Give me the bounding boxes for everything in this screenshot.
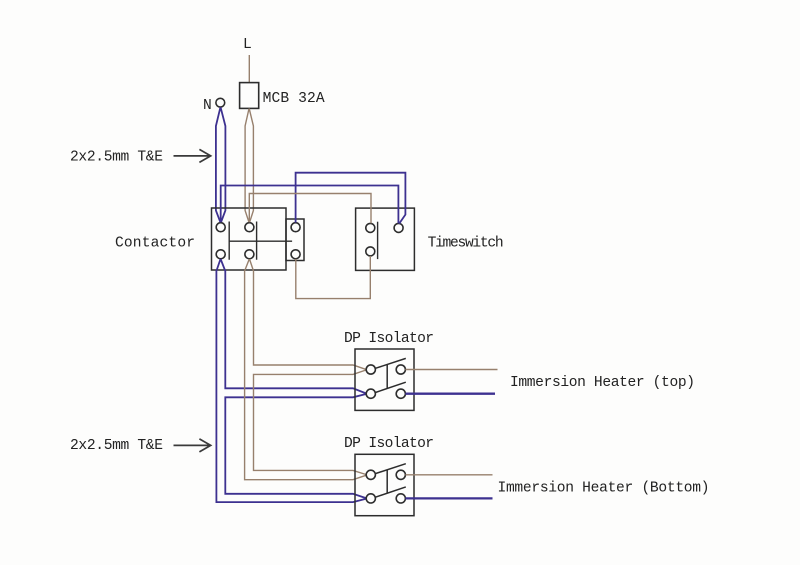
DP isolator 2 box: [355, 454, 414, 515]
contactor pole contact bars: [229, 222, 256, 260]
svg-text:DP Isolator: DP Isolator: [344, 436, 434, 452]
terminal isolator2 right-top: [396, 470, 405, 479]
wire pair N to contactor (neutral): [216, 107, 226, 222]
svg-text:Immersion Heater (Bottom): Immersion Heater (Bottom): [498, 481, 710, 497]
wire live DP isolator 1 to DP isolator 2: [254, 370, 367, 475]
wire neutral DP isolator 1 to DP isolator 2: [225, 394, 366, 498]
wire live contactor to DP isolator 1: [250, 259, 367, 369]
isolator1 switch blades: [375, 358, 405, 392]
arrow pointing to bottom cable: [174, 439, 211, 452]
contactor linkage bar: [229, 240, 292, 242]
terminal isolator2 left-top: [366, 470, 375, 479]
wire pair MCB to contactor (live): [245, 109, 253, 223]
svg-text:DP Isolator: DP Isolator: [344, 331, 434, 347]
wire contactor top-mid to timeswitch left-top (live): [249, 194, 371, 224]
wire timeswitch left-bottom to coil bottom (live): [296, 256, 371, 299]
terminal isolator2 right-bottom: [396, 494, 405, 503]
wire to immersion heater bottom (neutral): [405, 497, 492, 499]
MCB 32A breaker: [240, 83, 259, 109]
svg-text:Immersion Heater (top): Immersion Heater (top): [510, 375, 695, 391]
contactor box: [212, 208, 287, 270]
terminal contactor top-mid: [245, 223, 254, 232]
terminal isolator1 left-bottom: [366, 389, 375, 398]
svg-text:L: L: [243, 37, 252, 53]
svg-text:2x2.5mm T&E: 2x2.5mm T&E: [70, 438, 163, 454]
terminal isolator2 left-bottom: [366, 494, 375, 503]
wire to immersion heater bottom (live): [405, 474, 492, 476]
wire L to MCB (live feed): [248, 55, 250, 83]
terminal isolator1 left-top: [366, 365, 375, 374]
wire contactor top-left to timeswitch (blue): [221, 186, 399, 224]
DP isolator 1 box: [355, 349, 414, 410]
svg-text:2x2.5mm T&E: 2x2.5mm T&E: [70, 150, 163, 166]
wire to immersion heater top (neutral): [405, 393, 495, 395]
terminal timeswitch left-top: [366, 223, 375, 232]
isolator1 blade linkage: [386, 365, 388, 389]
svg-text:Contactor: Contactor: [115, 235, 195, 251]
arrow pointing to top cable: [174, 149, 211, 162]
terminal isolator1 right-bottom: [396, 389, 405, 398]
terminal contactor top-left: [216, 223, 225, 232]
terminal contactor bottom-left: [216, 250, 225, 259]
svg-text:Timeswitch: Timeswitch: [428, 236, 504, 252]
wire contactor coil top to timeswitch (blue): [296, 173, 406, 224]
timeswitch box: [356, 208, 415, 270]
isolator2 switch blades: [375, 464, 405, 498]
terminal contactor coil bottom: [291, 250, 300, 259]
isolator2 blade linkage: [386, 470, 388, 494]
terminal isolator1 right-top: [396, 365, 405, 374]
terminal N: [216, 98, 225, 107]
wire to immersion heater top (live): [405, 369, 497, 371]
contactor coil box: [286, 219, 304, 261]
terminal contactor coil top: [291, 223, 300, 232]
wire live contactor to DP isolator 2: [245, 259, 366, 480]
terminal timeswitch right-top: [394, 223, 403, 232]
svg-text:N: N: [203, 98, 212, 114]
timeswitch contact bar: [377, 222, 379, 259]
terminal contactor bottom-mid: [245, 250, 254, 259]
terminal timeswitch left-bottom: [366, 247, 375, 256]
svg-text:MCB 32A: MCB 32A: [263, 91, 325, 107]
wire neutral contactor to DP isolator 2: [216, 259, 366, 502]
wire neutral contactor to DP isolator 1: [221, 259, 366, 393]
